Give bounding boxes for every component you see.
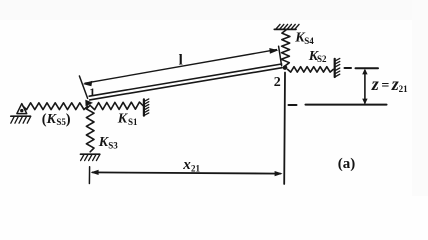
svg-text:S1: S1 bbox=[128, 117, 138, 127]
svg-text:S3: S3 bbox=[108, 140, 118, 150]
ceiling for KS4 bbox=[274, 24, 299, 29]
svg-text:S4: S4 bbox=[304, 36, 314, 46]
spring KS4 bbox=[281, 30, 290, 66]
svg-text:x: x bbox=[182, 157, 191, 173]
extension line at left of x21 bbox=[88, 167, 90, 184]
wall anchor for KS2 bbox=[335, 58, 340, 77]
label z = z21 bbox=[371, 74, 408, 94]
vertical line below node 2 bbox=[283, 73, 286, 185]
svg-text:l: l bbox=[179, 53, 183, 69]
dimension line l bbox=[83, 48, 279, 86]
label KS3 bbox=[98, 135, 118, 150]
spring KS5 bbox=[23, 103, 88, 110]
label KS1 bbox=[117, 112, 138, 127]
label KS2 bbox=[308, 49, 327, 64]
top reference line for z bbox=[356, 67, 379, 69]
svg-text:): ) bbox=[66, 112, 71, 128]
extension line at node 2 bbox=[279, 46, 282, 66]
svg-text:z: z bbox=[371, 74, 379, 94]
svg-text:1: 1 bbox=[89, 85, 95, 99]
label x21 bbox=[182, 157, 200, 174]
svg-text:(a): (a) bbox=[338, 156, 356, 172]
svg-text:21: 21 bbox=[191, 163, 201, 173]
pin support for KS5 bbox=[11, 104, 31, 124]
extension line at node 1 bbox=[79, 76, 87, 98]
svg-text:2: 2 bbox=[274, 75, 281, 90]
x21 dimension line bbox=[91, 170, 283, 176]
spring KS3 bbox=[86, 105, 94, 152]
node 2 junction bbox=[283, 65, 288, 70]
spring KS2 bbox=[288, 67, 334, 72]
svg-text:K: K bbox=[117, 112, 129, 127]
ground for KS3 bbox=[81, 154, 100, 160]
svg-text:21: 21 bbox=[399, 84, 409, 94]
label KS4 bbox=[294, 31, 314, 46]
rigid bar 1-2 (double line) bbox=[89, 64, 282, 100]
label (KS5) bbox=[42, 112, 71, 128]
node 1 junction bbox=[85, 100, 93, 107]
spring KS1 bbox=[91, 102, 143, 110]
bottom reference line for z bbox=[306, 104, 387, 106]
svg-text:S2: S2 bbox=[317, 54, 327, 64]
dash at bottom reference of z bbox=[289, 104, 297, 106]
z dimension arrow bbox=[362, 69, 367, 105]
dashed leader from KS2 anchor bbox=[345, 67, 352, 69]
svg-text:=: = bbox=[381, 79, 389, 94]
wall anchor for KS1 bbox=[144, 99, 149, 116]
